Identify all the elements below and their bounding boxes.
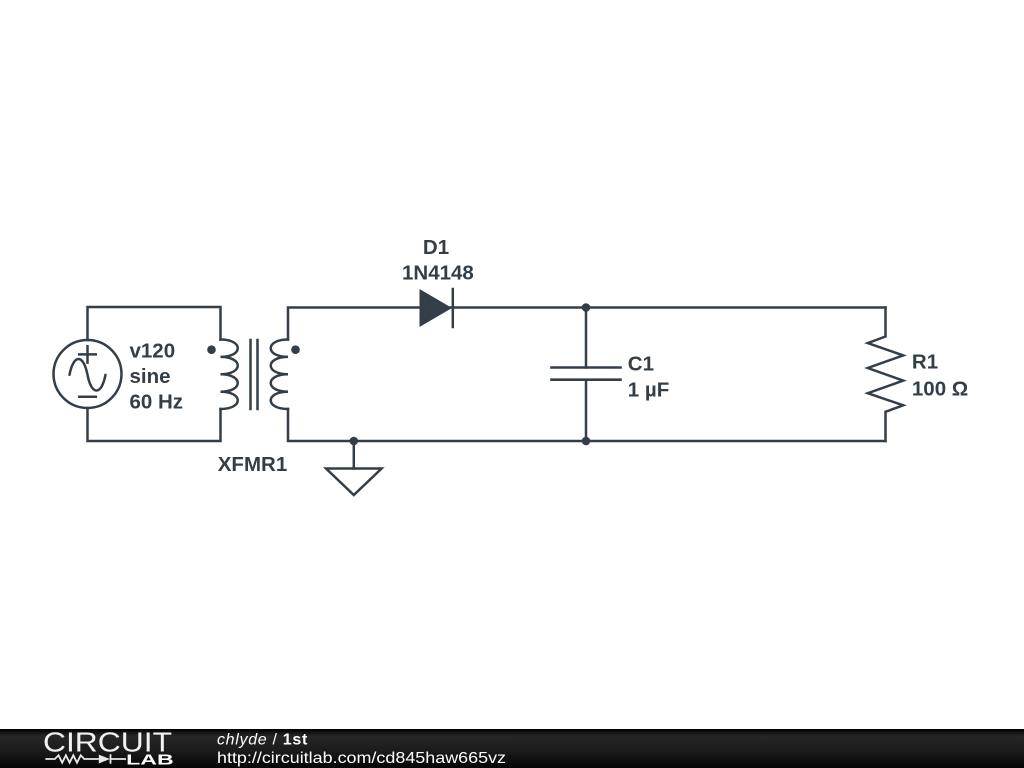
svg-text:60 Hz: 60 Hz: [130, 390, 184, 413]
svg-text:100 Ω: 100 Ω: [912, 377, 968, 400]
transformer XFMR1 secondary coil: [271, 340, 288, 409]
resistor R1 top lead and zigzag: [868, 308, 903, 442]
logo resistor zigzag: [45, 755, 98, 762]
transformer primary phase dot: [207, 345, 216, 354]
ground symbol triangle: [326, 469, 382, 496]
svg-text:http://circuitlab.com/cd845haw: http://circuitlab.com/cd845haw665vz: [217, 750, 506, 767]
node junction dot top of C1: [582, 303, 591, 312]
transformer core lines: [251, 340, 258, 409]
wire source top to primary top: [88, 307, 221, 340]
diode D1 triangle: [420, 289, 453, 327]
svg-text:LAB: LAB: [126, 751, 174, 768]
voltage source V1 circle: [54, 340, 122, 408]
voltage source minus sign: [79, 395, 96, 398]
transformer XFMR1 primary coil: [221, 340, 238, 409]
diode D1 cathode bar: [452, 289, 455, 327]
transformer secondary phase dot: [291, 345, 300, 354]
ground stub wire: [353, 441, 356, 469]
logo diode triangle: [99, 755, 110, 764]
footer black bar: [0, 729, 1024, 768]
voltage source plus sign: [79, 346, 96, 362]
svg-text:1 µF: 1 µF: [628, 378, 669, 401]
svg-text:chlyde / 1st: chlyde / 1st: [217, 732, 308, 749]
node junction dot bottom of C1: [582, 437, 591, 446]
capacitor C1 top lead: [585, 308, 588, 368]
svg-text:XFMR1: XFMR1: [218, 453, 287, 476]
svg-text:C1: C1: [628, 353, 654, 376]
svg-text:R1: R1: [912, 351, 938, 374]
svg-text:1N4148: 1N4148: [402, 261, 474, 284]
capacitor C1 bottom lead: [585, 380, 588, 441]
svg-text:D1: D1: [423, 236, 449, 259]
svg-text:v120: v120: [130, 340, 176, 363]
voltage source sine wave: [70, 359, 106, 391]
logo diode bar: [111, 754, 127, 764]
wire source bottom to primary bottom: [88, 408, 221, 441]
wire secondary bottom rail: [288, 409, 886, 441]
capacitor C1 plates: [552, 368, 621, 380]
wire secondary top rail: [288, 308, 886, 340]
svg-text:sine: sine: [130, 365, 171, 388]
node junction dot at ground: [350, 437, 359, 446]
